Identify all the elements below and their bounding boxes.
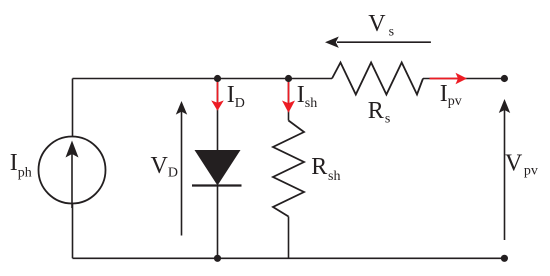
wire top horizontal (Rs to right terminal) bbox=[423, 78, 504, 80]
svg-text:Vs: Vs bbox=[368, 11, 394, 39]
wire shunt branch upper bbox=[288, 79, 290, 121]
svg-text:Rsh: Rsh bbox=[311, 154, 340, 184]
svg-text:Iph: Iph bbox=[10, 150, 32, 180]
wire top horizontal (left corner to Rs) bbox=[73, 78, 333, 80]
I_pv red arrowhead bbox=[456, 73, 468, 84]
svg-text:Rs: Rs bbox=[368, 98, 390, 127]
wire left vertical upper bbox=[72, 79, 74, 137]
wire diode branch lower bbox=[217, 186, 219, 259]
current source arrowhead bbox=[66, 141, 79, 158]
diode D anode triangle bbox=[195, 150, 241, 186]
svg-text:ID: ID bbox=[227, 82, 245, 111]
svg-text:Ish: Ish bbox=[297, 82, 317, 111]
V_D arrowhead bbox=[176, 101, 187, 115]
wire left vertical lower bbox=[72, 204, 74, 259]
current source arrow shaft bbox=[71, 152, 73, 208]
V_D arrow shaft bbox=[181, 110, 183, 236]
wire shunt branch lower bbox=[288, 217, 290, 259]
svg-text:Ipv: Ipv bbox=[440, 81, 462, 109]
current source I_ph circle bbox=[39, 137, 106, 204]
node dot bottom diode junction bbox=[214, 255, 221, 262]
I_D red arrow shaft bbox=[217, 80, 219, 103]
V_pv arrowhead bbox=[499, 99, 510, 113]
resistor R_s zigzag bbox=[332, 63, 423, 95]
svg-text:VD: VD bbox=[151, 153, 178, 181]
I_sh red arrowhead bbox=[282, 101, 295, 113]
node dot top-right terminal bbox=[501, 75, 508, 82]
diode cathode bar bbox=[192, 184, 242, 186]
node dot bottom-right terminal bbox=[501, 255, 508, 262]
wire bottom horizontal bbox=[73, 257, 505, 259]
V_pv arrow shaft bbox=[504, 108, 506, 240]
I_sh red arrow shaft bbox=[288, 80, 290, 103]
wire diode branch upper bbox=[217, 79, 219, 151]
node dot top shunt junction bbox=[285, 75, 292, 82]
I_pv red arrow shaft bbox=[430, 78, 459, 80]
svg-text:Vpv: Vpv bbox=[505, 151, 538, 179]
I_D red arrowhead bbox=[211, 100, 224, 110]
resistor R_sh zigzag bbox=[273, 121, 304, 217]
V_s arrow shaft bbox=[337, 41, 431, 43]
V_s arrowhead (points left) bbox=[325, 37, 339, 48]
node dot top diode junction bbox=[214, 75, 221, 82]
